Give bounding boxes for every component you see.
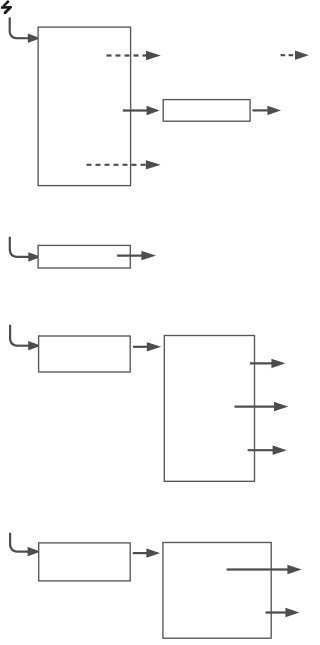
solid arrow D out of box2 [252, 109, 268, 111]
solid arrow I out of box5 middle [235, 406, 275, 408]
arrowhead hook3 [28, 341, 41, 350]
arrowhead J [273, 446, 287, 455]
solid arrow G box4 to box5 [133, 346, 147, 348]
arrowhead hook4 [28, 547, 41, 556]
solid arrow K box6 to box7 [133, 552, 147, 554]
solid arrow H out of box5 top [250, 362, 272, 364]
arrowhead F [141, 251, 156, 260]
box3 [38, 245, 130, 268]
arrowhead G [147, 342, 161, 351]
box7 [163, 543, 271, 639]
arrowhead L [287, 565, 301, 574]
solid arrow C box1 to box2 [123, 109, 147, 111]
dashed arrow B top right corner [281, 54, 295, 56]
wire hook4 into box6 [10, 533, 28, 552]
dashed arrow E from box1 bottom right [87, 164, 147, 166]
arrowhead B [295, 51, 309, 60]
dashed arrow A from box1 top right [107, 54, 147, 56]
box2 [163, 100, 250, 122]
arrowhead C [147, 106, 160, 115]
box6 [39, 543, 131, 581]
arrowhead hook2 [28, 252, 41, 261]
solid arrow M out of box7 bottom [266, 611, 287, 613]
box1 [38, 27, 131, 186]
box4 [39, 336, 131, 372]
wire hook3 into box4 [10, 325, 29, 346]
solid arrow J out of box5 bottom [248, 449, 274, 451]
arrowhead E [146, 160, 161, 169]
wire hook2 into box3 [10, 237, 29, 257]
arrowhead A [146, 51, 161, 60]
wire hook1 into box1 [10, 17, 29, 38]
solid arrow L out of box7 top [227, 568, 288, 570]
lightning bolt start event [1, 1, 11, 8]
arrowhead H [271, 359, 285, 368]
arrowhead M [285, 608, 299, 617]
arrowhead hook1 [28, 34, 41, 43]
arrowhead D [267, 106, 281, 115]
arrowhead I [274, 402, 288, 411]
solid arrow F out of box3 [117, 255, 142, 257]
box5 [164, 336, 254, 482]
arrowhead K [146, 548, 160, 557]
